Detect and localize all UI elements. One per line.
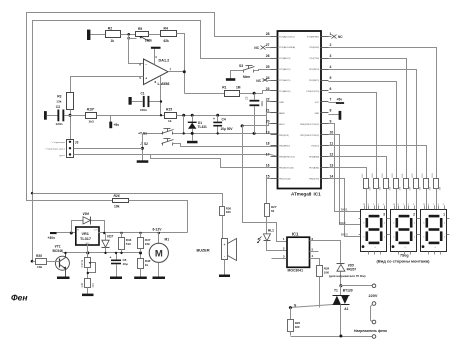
wire op-amp output to feedback node <box>169 71 185 73</box>
wire inverting input column from R2/R5 node to op-amp pin6 <box>129 35 144 64</box>
svg-text:DA1.2: DA1.2 <box>159 58 170 62</box>
transistor VT1 BC546 <box>53 244 70 276</box>
junction dots on reference line <box>182 114 219 117</box>
svg-text:J3: J3 <box>75 140 79 144</box>
svg-text:PD6(AIN0): PD6(AIN0) <box>309 156 319 159</box>
motor M1 <box>149 233 169 277</box>
svg-text:R1: R1 <box>222 85 226 89</box>
svg-text:3: 3 <box>383 212 385 216</box>
power +5v pin 7 <box>329 97 345 104</box>
capacitor C5 100n at ADC input <box>245 94 265 134</box>
resistor R16* 1k3 <box>86 108 97 124</box>
svg-text:12: 12 <box>330 152 334 156</box>
svg-text:PD0(RXD): PD0(RXD) <box>309 47 319 49</box>
junction dots ADJ line <box>86 251 142 254</box>
svg-text:10k: 10k <box>145 242 150 246</box>
push button S2 (-T) <box>140 139 174 147</box>
wire pin4 segment column <box>329 70 417 179</box>
label 7Seg <box>400 254 409 258</box>
svg-text:-: - <box>224 254 225 258</box>
wire S3 right to pin 25 <box>254 70 271 71</box>
svg-text:ATmega8: ATmega8 <box>291 192 312 197</box>
svg-text:M1: M1 <box>165 238 170 242</box>
svg-text:4: 4 <box>330 65 332 69</box>
svg-text:4: 4 <box>414 237 415 239</box>
wire pin9 digit 1 select <box>329 124 361 212</box>
node R2/R5/feedback junction dots <box>127 33 130 40</box>
svg-text:4: 4 <box>423 237 424 239</box>
svg-text:19: 19 <box>266 131 270 135</box>
svg-text:6: 6 <box>330 87 332 91</box>
junction dot R37/R38 <box>139 252 141 254</box>
wire pin6 segment column <box>329 93 377 179</box>
junction dot VD6 left <box>70 232 73 235</box>
label 220V <box>369 294 378 298</box>
svg-text:C1: C1 <box>141 91 145 95</box>
resistor R33 510 <box>119 233 132 253</box>
svg-text:AVCC: AVCC <box>279 123 285 126</box>
wire R5 to R4 <box>149 34 161 36</box>
svg-text:PD4(XCK/T0): PD4(XCK/T0) <box>306 91 319 93</box>
svg-text:4: 4 <box>363 223 364 225</box>
wire ground line y=133 from S1 to pin 19 <box>143 133 278 135</box>
TL431 ref loop wire <box>183 116 185 134</box>
svg-text:дутья: дутья <box>59 155 66 157</box>
svg-text:BUZER: BUZER <box>197 249 210 253</box>
svg-text:PB7(XTAL2/TOSC2): PB7(XTAL2/TOSC2) <box>300 134 319 137</box>
wire pad to R2 <box>91 34 106 36</box>
svg-text:NC: NC <box>256 79 261 83</box>
resistor R22 330 <box>412 173 422 210</box>
svg-text:4: 4 <box>435 247 436 249</box>
svg-text:4: 4 <box>414 223 415 225</box>
terminal 220V top <box>372 284 376 288</box>
svg-text:11: 11 <box>330 142 334 146</box>
svg-text:8: 8 <box>330 109 332 113</box>
svg-text:−: − <box>145 63 147 67</box>
resistor R24 330 <box>432 173 442 210</box>
svg-text:R36: R36 <box>81 282 84 287</box>
svg-text:R26: R26 <box>114 194 120 198</box>
resistor R21 330 <box>402 173 412 210</box>
label view from mounting side <box>377 258 431 263</box>
resistor R28 10K <box>317 266 331 308</box>
svg-text:23: 23 <box>266 87 270 91</box>
junction dot VT1 collector on ADJ line <box>64 252 66 254</box>
svg-text:4: 4 <box>405 247 406 249</box>
node DIG1 label <box>341 208 348 212</box>
svg-text:13k: 13k <box>56 99 61 103</box>
svg-text:2: 2 <box>330 43 332 47</box>
junction dot pin8 column on R15 line <box>160 114 162 116</box>
resistor R23 330 <box>422 173 432 210</box>
resistor R4 62k <box>161 26 177 43</box>
svg-text:C4: C4 <box>222 117 226 121</box>
junction dot frame2 at R35 <box>31 260 34 263</box>
7-segment digit 1 (right) <box>419 204 450 254</box>
svg-text:PD5(T1): PD5(T1) <box>311 146 319 148</box>
svg-text:+: + <box>224 243 226 247</box>
resistor R38 1k <box>138 259 151 277</box>
junction dot R34 wiper <box>87 272 89 274</box>
svg-text:4: 4 <box>363 237 364 239</box>
diode VD7 <box>102 233 114 253</box>
svg-text:25: 25 <box>266 65 270 69</box>
label heater <box>354 329 387 333</box>
wire MOC pin5 stub <box>310 251 319 253</box>
svg-text:R2: R2 <box>108 26 112 30</box>
svg-text:62: 62 <box>271 209 275 213</box>
wire R1 to pin 23 <box>240 91 278 94</box>
terminal 220V bottom <box>372 302 376 306</box>
svg-text:330: 330 <box>295 325 300 329</box>
svg-text:24: 24 <box>266 76 270 80</box>
wire ADJ line <box>63 252 141 254</box>
power tap +5v near R16 <box>109 116 119 129</box>
resistor R27 62 <box>265 204 277 234</box>
svg-text:R15: R15 <box>166 108 172 112</box>
svg-text:PC5(ADC5/SCL): PC5(ADC5/SCL) <box>279 35 295 38</box>
junction dot gate/R29 <box>289 306 292 309</box>
wire pin22 to ground line <box>267 102 278 134</box>
svg-text:1k3: 1k3 <box>89 119 94 123</box>
svg-text:DIG2: DIG2 <box>339 221 346 225</box>
svg-text:16: 16 <box>266 163 270 167</box>
ground C8 <box>110 277 122 280</box>
capacitor C3 120n <box>56 105 86 126</box>
junction dots on ground line <box>183 132 256 135</box>
ground pin 8 <box>329 111 342 120</box>
svg-text:510: 510 <box>126 242 131 246</box>
svg-text:DIG1: DIG1 <box>341 208 348 212</box>
svg-text:13k: 13k <box>37 265 42 269</box>
wire +30v to VR1 <box>57 232 76 234</box>
svg-text:LM358: LM358 <box>158 82 170 86</box>
label Fen <box>11 293 28 303</box>
wire J3 pin2 to switches ground <box>74 148 143 150</box>
svg-text:R4: R4 <box>164 26 168 30</box>
svg-text:10μ 50V: 10μ 50V <box>221 127 234 131</box>
svg-text:S3: S3 <box>239 64 243 68</box>
svg-text:5: 5 <box>330 76 332 80</box>
svg-text:4: 4 <box>384 223 385 225</box>
svg-text:(для нагревателя 70 Ом): (для нагревателя 70 Ом) <box>329 274 365 278</box>
junction dot frame2/buzzer branch <box>31 192 33 194</box>
resistor R29 330 <box>288 308 301 336</box>
capacitor C1 100n <box>132 91 161 112</box>
capacitor C4 10u 50V <box>213 116 233 134</box>
svg-text:R16*: R16* <box>87 108 95 112</box>
svg-text:+: + <box>213 117 215 121</box>
svg-text:BC546: BC546 <box>53 249 63 253</box>
LED HL1 <box>257 229 287 251</box>
wire bottom heater line <box>291 336 373 338</box>
push button S1 (+T) <box>138 129 173 136</box>
svg-text:PC1(ADC1): PC1(ADC1) <box>279 79 290 82</box>
ground switches <box>137 160 149 163</box>
wire pin13 segment column <box>329 168 367 179</box>
svg-text:3: 3 <box>330 54 332 58</box>
junction dot triac bottom <box>339 335 342 338</box>
svg-text:100n: 100n <box>260 100 264 106</box>
svg-text:+5v: +5v <box>114 123 120 127</box>
ground TL431 <box>187 134 198 144</box>
svg-text:180: 180 <box>226 210 231 214</box>
svg-text:C3: C3 <box>56 105 60 109</box>
svg-text:1k: 1k <box>111 39 115 43</box>
wire R4 right to feedback column <box>177 34 185 94</box>
terminal pad at C3 <box>44 111 47 120</box>
svg-text:7: 7 <box>330 98 332 102</box>
svg-text:26: 26 <box>266 54 270 58</box>
svg-text:BT139: BT139 <box>343 289 353 293</box>
potentiometer R5 100k <box>129 27 153 43</box>
wire pin11 segment column <box>329 146 427 179</box>
terminal pad input of R2 <box>87 30 90 40</box>
svg-text:PD1(TXD): PD1(TXD) <box>310 58 320 60</box>
buzzer BUZER <box>197 239 237 275</box>
svg-text:"+"термопары: "+"термопары <box>51 142 66 144</box>
diode D1 TL431 <box>188 116 207 134</box>
resistor R36 270 <box>81 279 95 294</box>
NC mark pin 24 <box>256 79 270 83</box>
svg-text:+: + <box>110 256 112 260</box>
wire J3 pin3 to pin 17 (fan line) <box>74 155 278 157</box>
wire gate line <box>291 303 333 307</box>
svg-text:PB1(OC1A): PB1(OC1A) <box>279 178 290 181</box>
svg-text:4: 4 <box>444 237 445 239</box>
svg-text:+5v: +5v <box>337 97 343 101</box>
svg-text:4: 4 <box>375 247 376 249</box>
wire R2 to R5 junction <box>121 34 136 36</box>
svg-text:VD6: VD6 <box>83 212 90 216</box>
svg-text:IC1: IC1 <box>314 192 322 197</box>
svg-text:PB0(ICP1): PB0(ICP1) <box>309 179 319 181</box>
svg-text:IC1: IC1 <box>292 231 299 236</box>
ground VT1 emitter <box>57 277 70 280</box>
svg-text:PD7(AIN1): PD7(AIN1) <box>309 167 319 170</box>
svg-text:18: 18 <box>266 142 270 146</box>
svg-text:22: 22 <box>266 98 270 102</box>
ground R38 <box>134 277 147 280</box>
wire MOC pin4 to R28 <box>310 259 320 266</box>
svg-text:C5: C5 <box>245 96 249 100</box>
wire R26 to motor rail <box>129 201 188 233</box>
svg-text:VT1: VT1 <box>55 244 61 248</box>
terminal heater top <box>372 320 376 324</box>
resistor R2 <box>106 26 121 43</box>
junction dot triac top <box>339 284 342 287</box>
svg-text:G: G <box>294 303 297 307</box>
terminal +30v <box>48 232 57 240</box>
svg-text:+: + <box>145 77 147 81</box>
svg-text:T1: T1 <box>334 289 338 293</box>
terminal heater bottom <box>372 335 376 339</box>
svg-text:20: 20 <box>266 120 270 124</box>
svg-text:100k: 100k <box>145 39 152 43</box>
label 6-12V <box>153 228 163 232</box>
resistor R1 1M <box>222 85 240 96</box>
svg-text:Фен: Фен <box>11 293 28 303</box>
svg-text:"-"термопары, дутья: "-"термопары, дутья <box>44 148 65 150</box>
svg-text:15: 15 <box>266 174 270 178</box>
wire pin10 digit 2 select <box>329 135 361 225</box>
node DIG3 label <box>341 232 348 236</box>
op-amp pin8 column down to R15 line <box>160 77 162 116</box>
svg-text:PC2(ADC2): PC2(ADC2) <box>279 68 290 71</box>
junction dot op-amp output <box>183 70 186 73</box>
diode VD6 over regulator <box>72 212 105 233</box>
svg-text:1k: 1k <box>168 119 172 123</box>
svg-text:TL317: TL317 <box>80 237 91 241</box>
wire S2 to pin 18 <box>173 144 278 147</box>
wire VR1 ADJ pin <box>87 245 89 253</box>
svg-text:27: 27 <box>266 43 270 47</box>
svg-text:4: 4 <box>423 223 424 225</box>
svg-text:1: 1 <box>443 212 445 216</box>
svg-text:R5: R5 <box>138 27 142 31</box>
wire AVCC column down to MOC pin1 bypass <box>243 126 287 242</box>
svg-text:10μ: 10μ <box>123 262 128 266</box>
svg-text:PC4(ADC4/SDA): PC4(ADC4/SDA) <box>279 46 295 49</box>
svg-text:2: 2 <box>413 212 415 216</box>
wire pin20 AVCC line <box>243 124 278 126</box>
wire pin15 to R27 <box>267 179 271 204</box>
junction dot pin23/C5 <box>253 92 256 95</box>
svg-text:GND: GND <box>315 113 320 115</box>
svg-text:270: 270 <box>92 283 95 288</box>
svg-text:1: 1 <box>330 32 332 36</box>
ground M1 <box>153 277 166 280</box>
resistor R20 330 <box>392 173 402 210</box>
svg-text:10k: 10k <box>114 205 120 209</box>
svg-text:17: 17 <box>266 152 270 156</box>
svg-text:PB2(SS/OC1B): PB2(SS/OC1B) <box>279 168 294 170</box>
svg-text:+30v: +30v <box>48 236 56 240</box>
svg-text:PB5(SCK): PB5(SCK) <box>279 135 289 137</box>
junction dots motor rail <box>103 232 160 234</box>
wire pin5 segment column <box>329 82 397 179</box>
wire MOC pin6 to VD5 column <box>310 241 341 264</box>
resistor R15 1k <box>165 108 177 124</box>
wire op-amp pin5 to thermocouple column <box>71 77 144 93</box>
ground buzzer <box>219 275 230 278</box>
wire pin12 segment column <box>329 157 387 179</box>
wire S3 left to ground <box>231 71 244 79</box>
7-segment digit 2 (middle) <box>389 204 420 254</box>
svg-text:21: 21 <box>266 109 270 113</box>
svg-text:GND: GND <box>279 102 284 104</box>
svg-text:FR207: FR207 <box>347 268 357 272</box>
svg-text:4: 4 <box>393 237 394 239</box>
resistor R19 330 <box>382 173 392 210</box>
diode VD5 FR207 <box>329 264 365 286</box>
svg-text:PC6(RESET): PC6(RESET) <box>307 36 320 38</box>
svg-text:HL1: HL1 <box>268 229 274 233</box>
svg-text:120n: 120n <box>56 122 63 126</box>
ground R36 <box>82 294 94 297</box>
svg-text:1M: 1M <box>236 85 241 89</box>
junction dot C3/R3/R16 node <box>69 114 72 117</box>
resistor R17 330 <box>362 173 372 210</box>
7-segment digit 3 (left) <box>359 204 390 254</box>
svg-text:NC: NC <box>338 35 343 39</box>
wire R15 line to pin 21 AREF <box>177 113 278 116</box>
wire R16 to R15 with +5v tap <box>97 115 165 117</box>
svg-text:100n: 100n <box>140 108 147 112</box>
capacitor C8 10u <box>110 253 128 277</box>
svg-text:PD3(INT1): PD3(INT1) <box>309 80 319 82</box>
svg-text:PC0(ADC0): PC0(ADC0) <box>279 90 290 93</box>
svg-text:PB6(XTAL1/TOSC1): PB6(XTAL1/TOSC1) <box>300 123 319 126</box>
wire triac to 220V terminal <box>341 285 373 287</box>
wire tap to pin 16 <box>151 155 278 168</box>
resistor R3 13k <box>56 93 73 110</box>
wire frame2 to buzzer resistor R30 <box>33 194 223 207</box>
potentiometer R34 5k <box>81 253 96 279</box>
svg-text:PC3(ADC3): PC3(ADC3) <box>279 57 290 60</box>
wire MOC pin3 stub <box>272 258 287 260</box>
svg-text:R35: R35 <box>36 254 42 258</box>
junction dot AVCC line <box>241 124 244 127</box>
resistor R26 <box>113 194 129 209</box>
svg-text:-T S2: -T S2 <box>140 142 148 146</box>
NC mark pin 27 <box>254 46 270 50</box>
svg-text:14: 14 <box>330 174 334 178</box>
svg-text:VD7: VD7 <box>107 235 113 239</box>
svg-text:TL431: TL431 <box>198 125 207 129</box>
wire net pin26 (second frame loop, to buzzer and VT1 base) <box>33 21 271 262</box>
svg-text:VCC: VCC <box>315 102 320 104</box>
svg-text:7Seg: 7Seg <box>400 254 409 258</box>
svg-text:PB4(MISO): PB4(MISO) <box>279 146 290 148</box>
svg-text:Нагреватель фена: Нагреватель фена <box>354 329 387 333</box>
wire net pin28 / R26 frame (top-left loop) <box>27 13 271 201</box>
svg-text:AREF: AREF <box>279 112 285 115</box>
wire pin14 digit 3 select <box>329 179 361 237</box>
svg-text:4: 4 <box>393 223 394 225</box>
svg-text:62k: 62k <box>164 39 170 43</box>
junction dot C8 top <box>115 252 117 254</box>
junction dot C1 to pin8 column <box>160 100 162 102</box>
op-amp DA1.2 LM358 <box>139 55 171 86</box>
triac T1 BT139 <box>333 286 353 337</box>
svg-text:28: 28 <box>266 32 270 36</box>
svg-text:4: 4 <box>384 237 385 239</box>
svg-text:4: 4 <box>444 223 445 225</box>
wire 220V to heater terminal <box>371 305 373 322</box>
optocoupler IC1 MOC3041 <box>283 231 314 272</box>
svg-text:R34 5k: R34 5k <box>81 259 84 267</box>
svg-text:PB3(MOSI/OC2): PB3(MOSI/OC2) <box>279 157 295 159</box>
terminal pad at C1 <box>129 97 132 105</box>
wire pin3 segment column <box>329 59 407 179</box>
junction dot switches common <box>141 147 144 150</box>
resistor R18 330 <box>372 173 382 210</box>
svg-text:(Вид со стороны монтажа): (Вид со стороны монтажа) <box>377 258 431 263</box>
resistor R30 180 <box>220 206 232 238</box>
svg-text:220V: 220V <box>369 294 378 298</box>
svg-text:VR1: VR1 <box>82 232 89 236</box>
wire S1/S2 common to ground <box>142 134 144 161</box>
IC1 ATmega8 microcontroller <box>266 31 334 197</box>
resistor R37 10k <box>138 233 151 259</box>
resistor R35 13k base resistor <box>33 254 60 269</box>
switch S3 Mem <box>239 64 255 79</box>
wire op-amp output to R1 <box>185 93 225 95</box>
ground S3 <box>226 78 235 81</box>
wire pad to C3 <box>47 115 58 117</box>
